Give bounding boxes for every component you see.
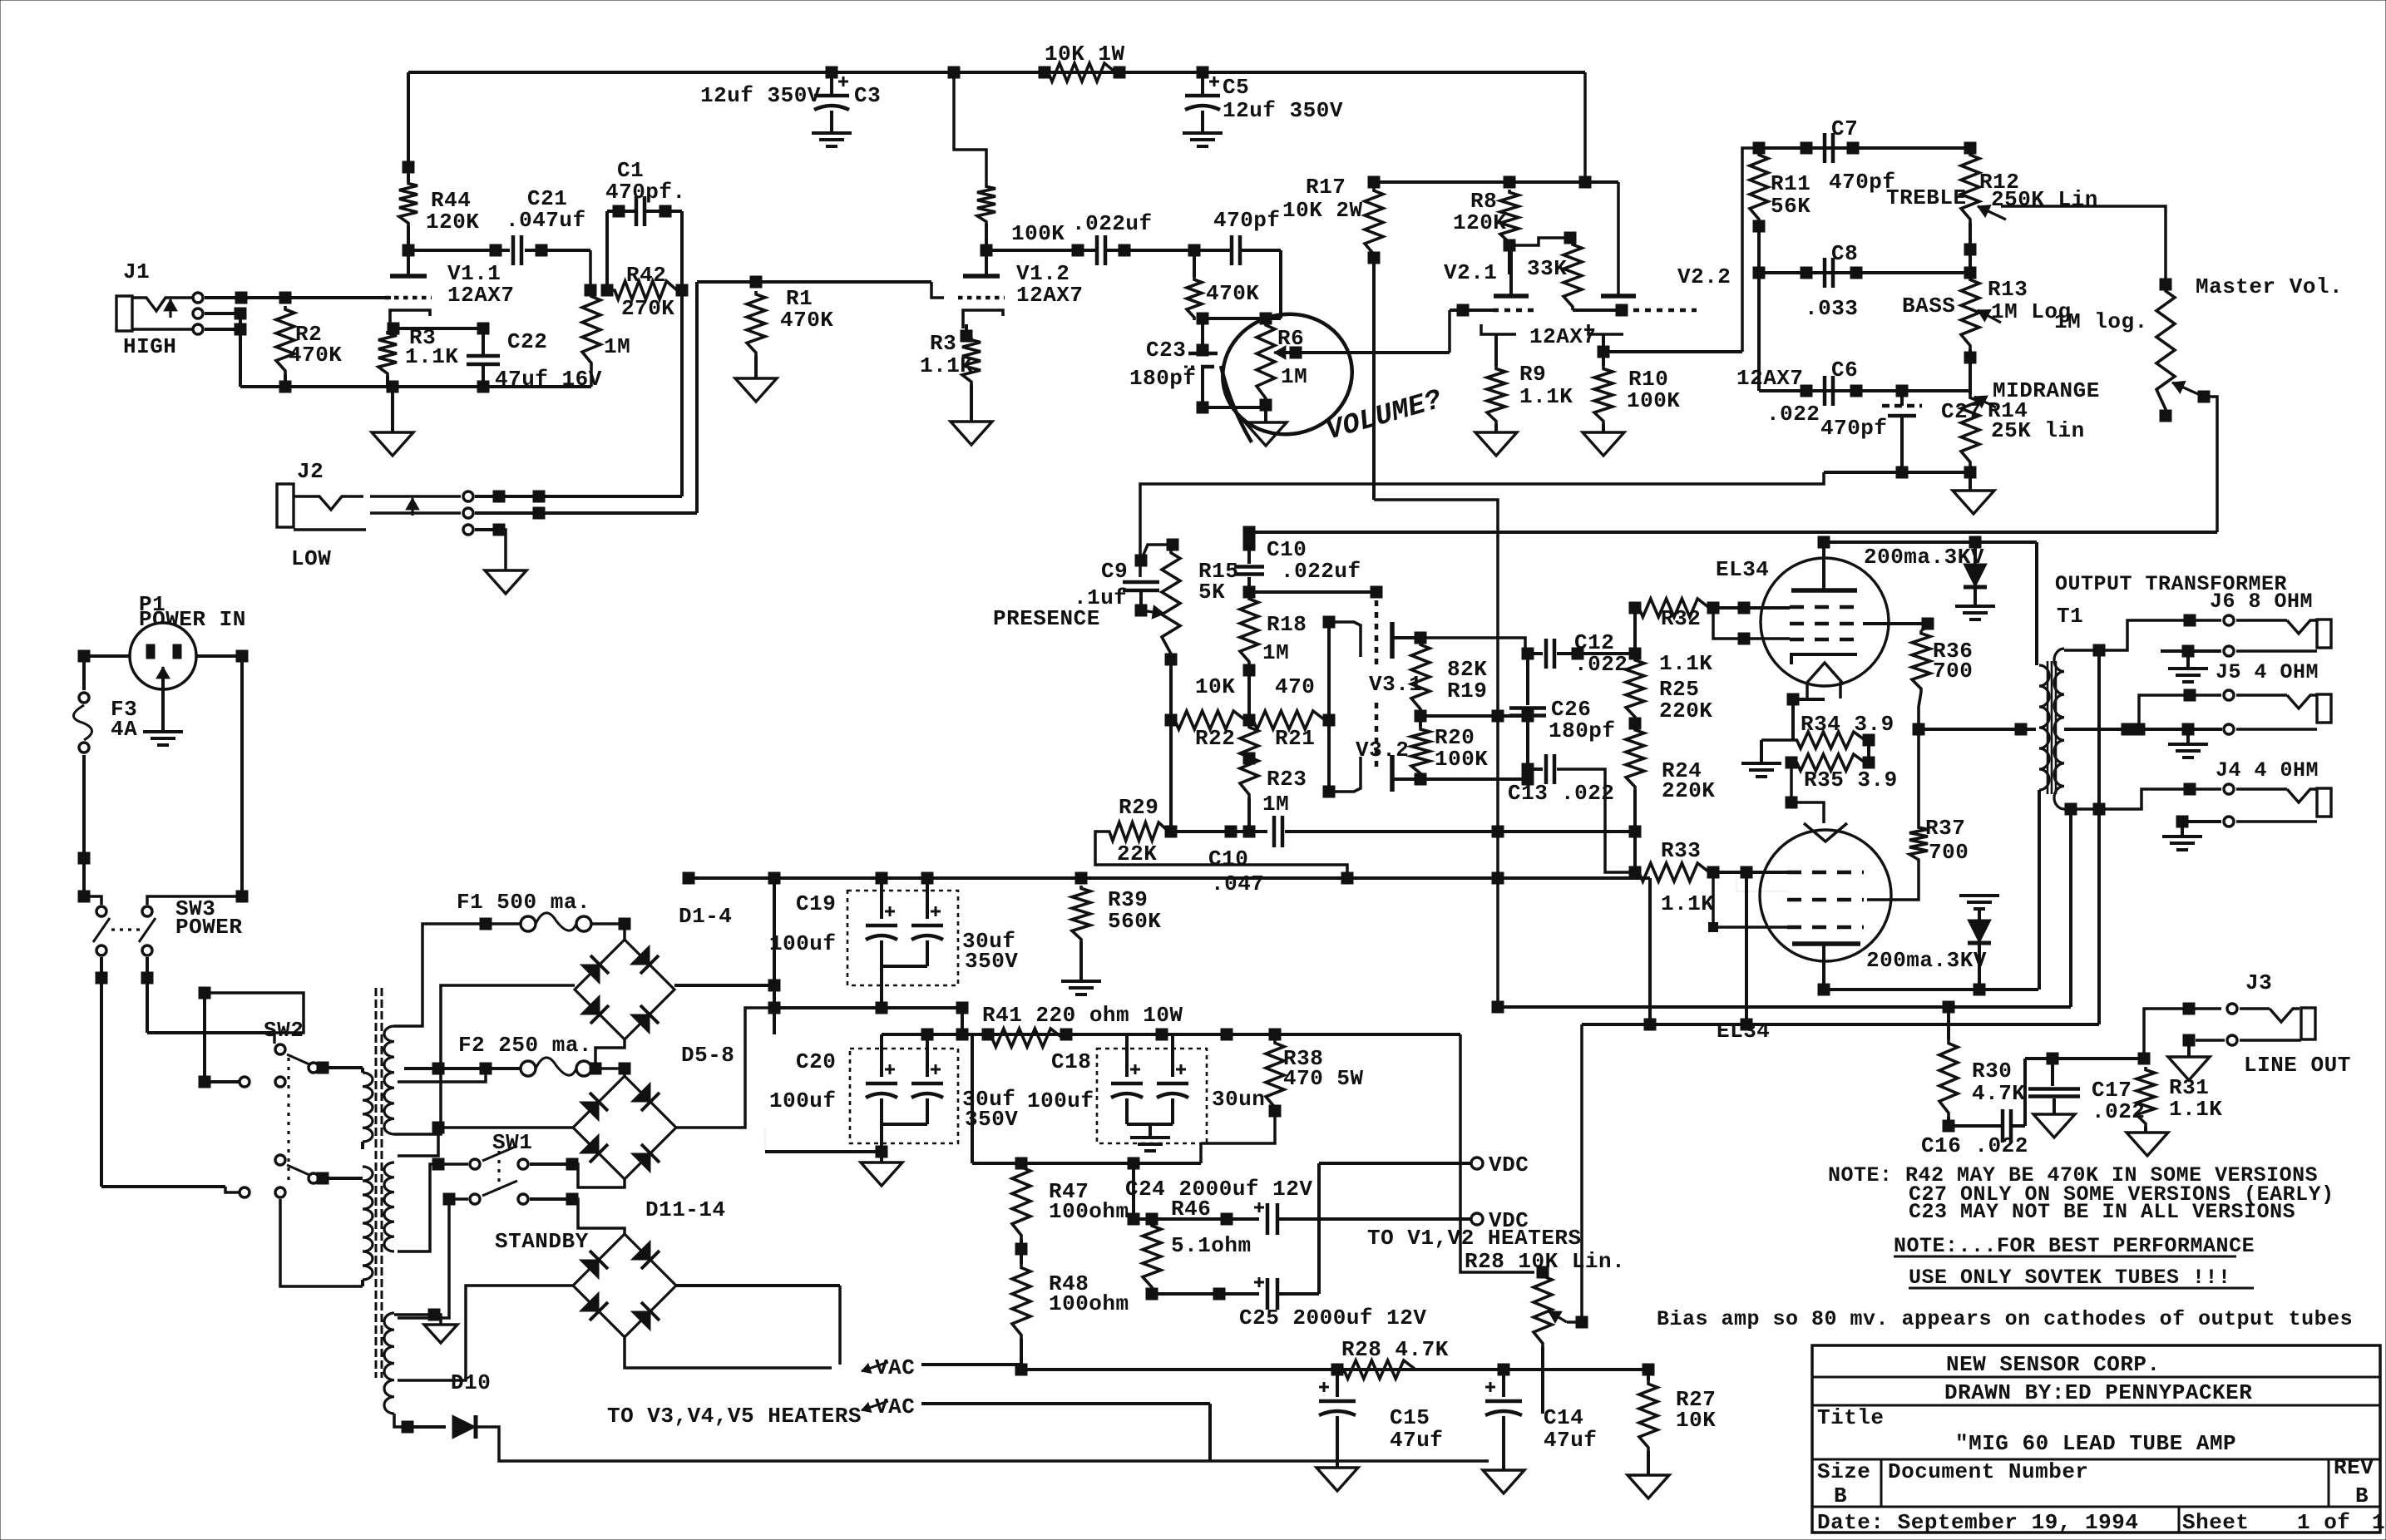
svg-text:12uf 350V: 12uf 350V [1223,98,1343,123]
svg-text:R34 3.9: R34 3.9 [1801,712,1894,737]
svg-text:R23: R23 [1267,767,1307,792]
svg-text:R3: R3 [930,331,956,356]
svg-text:1.1K: 1.1K [920,353,973,378]
svg-text:R41 220 ohm 10W: R41 220 ohm 10W [982,1003,1183,1028]
svg-text:1M log.: 1M log. [2054,309,2148,334]
svg-text:Size: Size [1817,1459,1870,1484]
svg-text:1.1K: 1.1K [2169,1097,2222,1122]
svg-text:R11: R11 [1771,171,1810,196]
svg-text:5.1ohm: 5.1ohm [1171,1233,1252,1258]
svg-text:10K: 10K [1195,674,1235,699]
svg-text:R21: R21 [1275,726,1315,751]
svg-text:.022: .022 [1574,652,1628,677]
svg-text:C3: C3 [854,83,881,108]
svg-text:470K: 470K [780,308,833,333]
svg-text:47uf: 47uf [1390,1428,1443,1453]
svg-text:J6 8 OHM: J6 8 OHM [2210,590,2313,614]
svg-text:PRESENCE: PRESENCE [993,606,1100,631]
svg-text:1.1K: 1.1K [1519,384,1573,409]
svg-text:R30: R30 [1972,1059,2012,1083]
svg-text:B: B [2355,1483,2369,1508]
svg-text:R32: R32 [1661,606,1701,631]
svg-text:1 of: 1 of [2297,1510,2350,1535]
svg-text:100uf: 100uf [769,1088,837,1113]
svg-text:120K: 120K [426,210,479,234]
svg-text:R6: R6 [1277,326,1304,351]
svg-text:VAC: VAC [875,1355,915,1380]
svg-text:R17: R17 [1306,175,1346,200]
svg-text:560K: 560K [1108,909,1161,934]
svg-text:12AX7: 12AX7 [447,283,515,308]
svg-text:DRAWN BY:ED PENNYPACKER: DRAWN BY:ED PENNYPACKER [1944,1380,2252,1405]
svg-text:.047uf: .047uf [506,208,586,233]
svg-text:R37: R37 [1925,816,1965,841]
svg-text:D5-8: D5-8 [681,1043,734,1068]
svg-text:C15: C15 [1390,1405,1430,1430]
svg-text:J5 4 OHM: J5 4 OHM [2216,660,2319,684]
svg-text:1M: 1M [1262,792,1289,817]
svg-text:10K 2W: 10K 2W [1282,198,1363,223]
svg-text:.022uf: .022uf [1281,559,1361,584]
svg-text:J4 4 0HM: J4 4 0HM [2216,758,2319,782]
svg-text:100ohm: 100ohm [1049,1291,1129,1316]
svg-text:Document Number: Document Number [1888,1459,2089,1484]
svg-text:700: 700 [1929,840,1969,865]
svg-text:470pf: 470pf [1213,208,1281,233]
svg-text:47uf: 47uf [1544,1428,1597,1453]
svg-text:C20: C20 [796,1049,836,1074]
svg-text:NEW SENSOR CORP.: NEW SENSOR CORP. [1946,1352,2161,1377]
svg-text:F2 250 ma.: F2 250 ma. [458,1033,592,1058]
svg-text:.033: .033 [1805,296,1858,321]
svg-text:D1-4: D1-4 [679,904,732,929]
svg-text:180pf: 180pf [1549,718,1616,743]
svg-text:1.1K: 1.1K [1659,651,1712,676]
svg-text:100K: 100K [1011,221,1065,246]
svg-text:R42: R42 [626,263,666,288]
svg-text:J2: J2 [297,459,324,484]
svg-text:C6: C6 [1831,358,1858,383]
svg-text:56K: 56K [1771,194,1810,219]
svg-text:R19: R19 [1447,679,1487,703]
svg-text:5K: 5K [1198,580,1225,605]
svg-text:J1: J1 [123,259,150,284]
svg-text:D11-14: D11-14 [645,1197,726,1222]
svg-text:STANDBY: STANDBY [495,1229,589,1254]
svg-text:D10: D10 [451,1370,491,1395]
svg-text:700: 700 [1933,659,1973,684]
svg-text:22K: 22K [1117,842,1157,866]
svg-text:Title: Title [1817,1405,1885,1430]
svg-text:"MIG 60 LEAD TUBE AMP: "MIG 60 LEAD TUBE AMP [1955,1431,2236,1456]
svg-text:Master Vol.: Master Vol. [2196,274,2343,299]
svg-text:T1: T1 [2057,604,2083,629]
svg-text:C7: C7 [1831,116,1858,141]
svg-text:J3: J3 [2245,970,2272,995]
svg-text:EL34: EL34 [1716,557,1769,582]
svg-text:C27: C27 [1941,399,1981,424]
svg-text:1M: 1M [1262,640,1289,665]
svg-text:TO V3,V4,V5 HEATERS: TO V3,V4,V5 HEATERS [607,1404,862,1429]
svg-text:33K: 33K [1527,256,1567,281]
svg-text:4.7K: 4.7K [1972,1081,2025,1106]
svg-text:30un: 30un [1212,1087,1265,1112]
svg-text:470 5W: 470 5W [1283,1066,1364,1091]
svg-text:.022: .022 [1766,402,1820,427]
svg-text:.047: .047 [1211,871,1264,896]
svg-text:25K lin: 25K lin [1991,418,2085,443]
svg-text:C24 2000uf 12V: C24 2000uf 12V [1125,1177,1312,1202]
svg-text:HIGH: HIGH [123,334,176,359]
svg-text:470K: 470K [1206,281,1259,306]
svg-text:C23 MAY NOT BE IN ALL VERSIONS: C23 MAY NOT BE IN ALL VERSIONS [1909,1200,2295,1224]
svg-text:10K: 10K [1676,1408,1716,1433]
svg-text:C8: C8 [1831,241,1858,266]
svg-text:C19: C19 [796,891,836,916]
svg-text:C10: C10 [1208,847,1248,871]
svg-text:R13: R13 [1988,277,2028,302]
svg-text:100uf: 100uf [769,931,837,956]
svg-text:R33: R33 [1661,838,1701,863]
svg-text:12AX7: 12AX7 [1016,283,1084,308]
svg-text:C16 .022: C16 .022 [1921,1133,2028,1158]
svg-text:1: 1 [2372,1510,2385,1535]
svg-text:B: B [1834,1483,1847,1508]
svg-text:12uf 350V: 12uf 350V [700,83,821,108]
svg-text:.022: .022 [1561,781,1614,806]
svg-text:F1 500 ma.: F1 500 ma. [457,890,590,915]
svg-text:350V: 350V [965,949,1018,974]
svg-text:R22: R22 [1195,726,1235,751]
svg-text:470pf: 470pf [1820,416,1888,441]
svg-text:1M: 1M [1281,364,1307,389]
svg-text:1.1K: 1.1K [405,344,458,369]
svg-text:270K: 270K [621,296,674,321]
svg-text:C13: C13 [1508,781,1548,806]
svg-text:NOTE:...FOR BEST PERFORMANCE: NOTE:...FOR BEST PERFORMANCE [1894,1234,2255,1258]
svg-text:BASS: BASS [1902,294,1955,318]
svg-text:250K Lin: 250K Lin [1991,187,2098,212]
svg-text:200ma.3KV: 200ma.3KV [1866,948,1987,973]
svg-text:Date: September 19, 1994: Date: September 19, 1994 [1817,1510,2138,1535]
svg-text:R28 4.7K: R28 4.7K [1341,1337,1449,1362]
svg-text:LOW: LOW [291,546,331,571]
svg-text:V2.2: V2.2 [1677,264,1731,289]
svg-text:.022uf: .022uf [1072,211,1153,236]
svg-text:1M: 1M [604,334,630,359]
svg-text:12AX7: 12AX7 [1529,324,1597,349]
svg-text:100K: 100K [1627,388,1680,413]
svg-text:Sheet: Sheet [2182,1510,2250,1535]
svg-text:220K: 220K [1659,698,1712,723]
svg-text:C22: C22 [507,329,547,354]
svg-text:LINE OUT: LINE OUT [2244,1053,2351,1078]
svg-text:R35 3.9: R35 3.9 [1804,768,1898,792]
svg-text:1.1K: 1.1K [1661,891,1714,916]
svg-text:SW2: SW2 [264,1018,304,1043]
svg-text:4A: 4A [111,717,137,742]
svg-text:V2.1: V2.1 [1444,260,1497,285]
svg-text:180pf: 180pf [1129,366,1197,391]
svg-text:TREBLE: TREBLE [1886,185,1967,210]
svg-text:R18: R18 [1267,612,1307,637]
svg-text:47uf 16V: 47uf 16V [495,367,602,392]
svg-text:C9: C9 [1101,559,1128,584]
svg-text:12AX7: 12AX7 [1736,366,1804,391]
svg-text:C18: C18 [1051,1049,1091,1074]
svg-text:V3.2: V3.2 [1356,738,1409,763]
svg-text:VDC: VDC [1489,1153,1529,1177]
svg-text:POWER: POWER [175,915,243,940]
svg-text:TO V1,V2 HEATERS: TO V1,V2 HEATERS [1367,1226,1582,1251]
svg-text:10K 1W: 10K 1W [1045,42,1125,67]
svg-text:R9: R9 [1519,362,1546,387]
svg-text:120K: 120K [1453,210,1506,235]
svg-text:Bias amp so 80 mv. appears on: Bias amp so 80 mv. appears on cathodes o… [1657,1307,2353,1331]
svg-text:220K: 220K [1662,778,1715,803]
svg-text:100K: 100K [1435,747,1488,772]
svg-text:C5: C5 [1223,75,1249,100]
svg-text:C25 2000uf 12V: C25 2000uf 12V [1239,1306,1426,1330]
svg-text:470: 470 [1275,674,1315,699]
svg-text:USE ONLY SOVTEK TUBES !!!: USE ONLY SOVTEK TUBES !!! [1909,1266,2231,1290]
svg-text:C14: C14 [1544,1405,1583,1430]
svg-text:VAC: VAC [875,1394,915,1419]
svg-text:R29: R29 [1119,795,1158,820]
svg-text:C23: C23 [1146,338,1186,363]
svg-text:REV: REV [2334,1455,2374,1480]
svg-text:100ohm: 100ohm [1049,1199,1129,1224]
svg-text:100uf: 100uf [1027,1088,1094,1113]
svg-text:470K: 470K [289,343,342,368]
